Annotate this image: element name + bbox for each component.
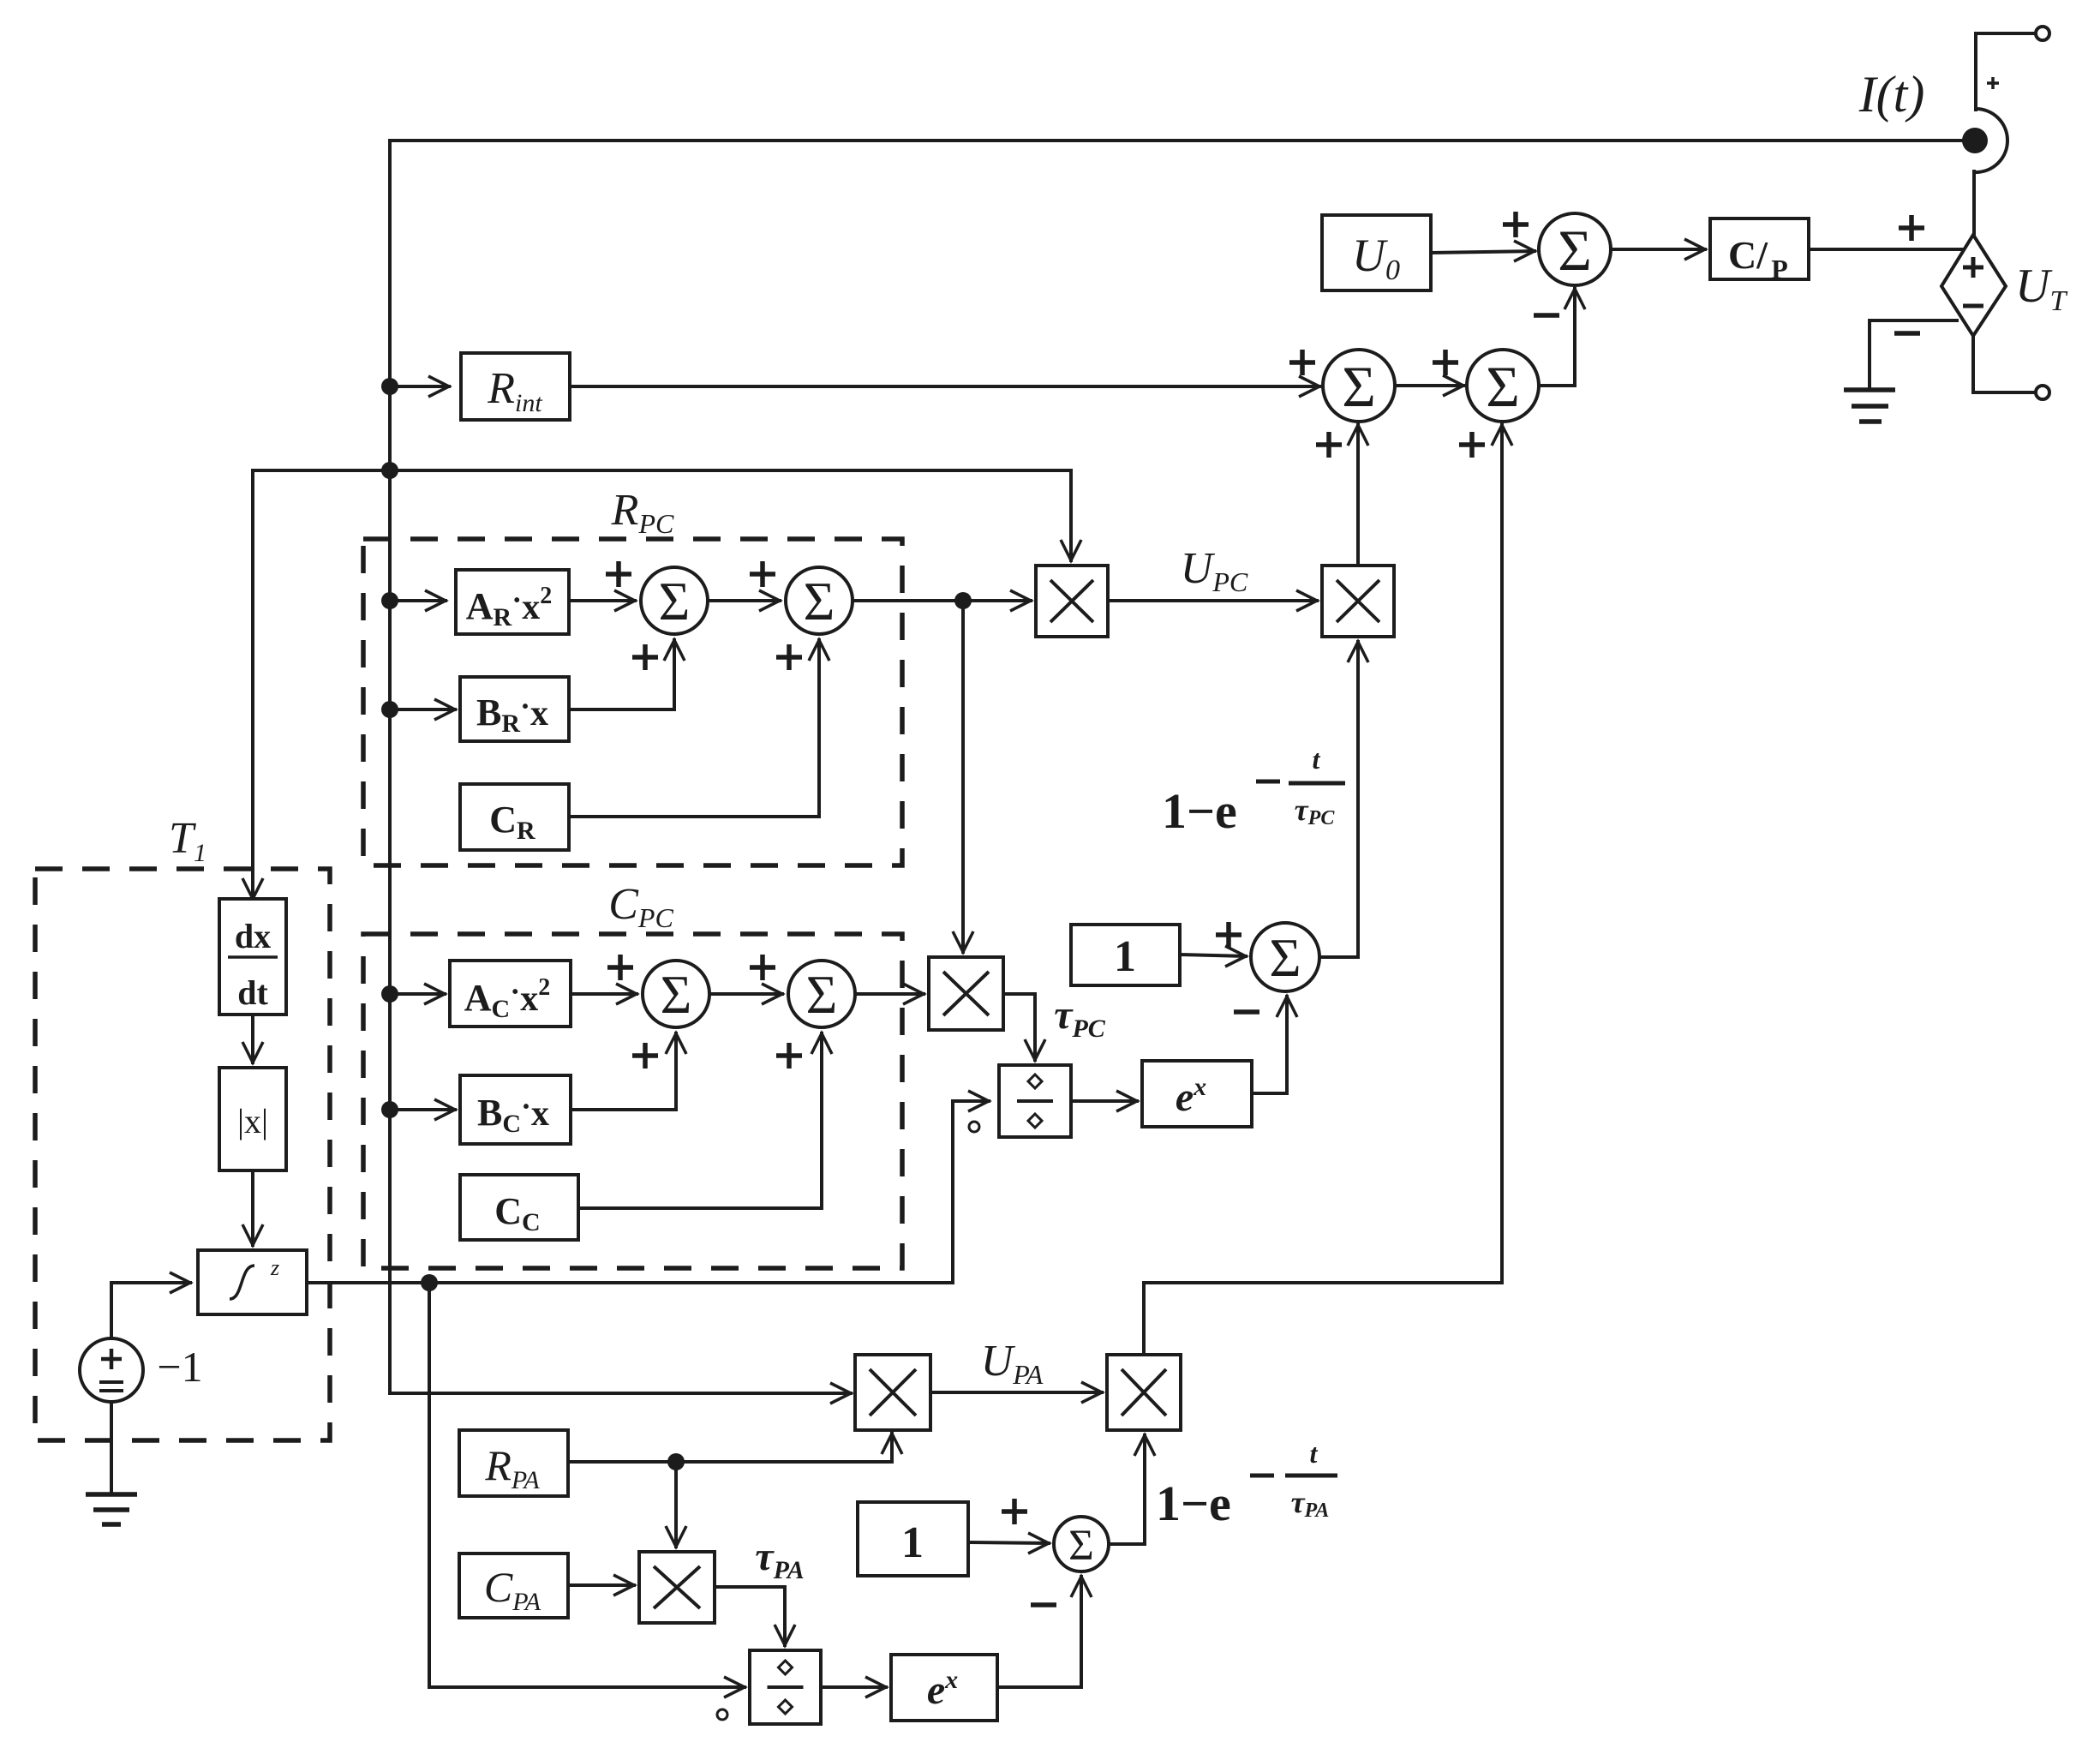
block PA constant 1 bbox=[858, 1502, 968, 1576]
current sensor polarity mark bbox=[1987, 77, 1999, 89]
svg-text:P: P bbox=[1771, 254, 1788, 284]
wire summer SA to SB bbox=[1395, 375, 1463, 396]
node junction RPC output bbox=[954, 592, 972, 609]
sign + SR1 bottom bbox=[632, 644, 658, 670]
wire PC exp to summer SPC bottom bbox=[1252, 997, 1297, 1093]
wire PA multiplier 2 output up bbox=[1144, 1283, 1502, 1355]
label I(t) bbox=[1858, 66, 1925, 123]
label T1 bbox=[169, 814, 206, 867]
block PC multiplier 2 bbox=[1322, 566, 1394, 637]
block PA exponential e^x bbox=[891, 1655, 997, 1721]
block saturating integrator bbox=[198, 1250, 307, 1314]
svg-text:1: 1 bbox=[1114, 932, 1136, 981]
wire summer SC2 to tau multiplier bbox=[856, 984, 924, 1004]
label U_PC bbox=[1181, 544, 1248, 597]
svg-text:Σ: Σ bbox=[659, 572, 691, 632]
wire R_int to summer SA bbox=[570, 376, 1319, 397]
wire abs to integrator bbox=[242, 1170, 263, 1245]
wire bus to R_int bbox=[390, 376, 449, 397]
wire PA tau multiplier to PA divider top (tau_PA) bbox=[715, 1587, 795, 1645]
wire summer SPA to PA multiplier 2 bottom bbox=[1109, 1435, 1155, 1544]
wire source to integrator bbox=[111, 1272, 190, 1338]
node junction R_PA output bbox=[667, 1453, 685, 1470]
block PA multiplier 2 bbox=[1107, 1355, 1181, 1430]
current sensor arc bbox=[1976, 109, 2007, 172]
wire summer SC1 to SC2 bbox=[710, 984, 782, 1004]
wire PC multiplier 1 to 2 (U_PC) bbox=[1108, 590, 1317, 611]
sign + SR2 bottom bbox=[776, 644, 802, 670]
node junction bus/AC bbox=[381, 985, 398, 1003]
source -1 circle bbox=[80, 1338, 143, 1402]
summer SA (R_int drop + U_PC) bbox=[1323, 350, 1395, 422]
wire bus to BC box bbox=[390, 1099, 455, 1120]
wire PA divider to PA exp bbox=[821, 1677, 886, 1697]
block AC*x^2 bbox=[450, 961, 571, 1027]
svg-text:dt: dt bbox=[237, 973, 268, 1012]
block tau_PA multiplier bbox=[639, 1552, 715, 1623]
block U0 bbox=[1322, 215, 1431, 290]
label tau_PA bbox=[755, 1534, 804, 1584]
wire top terminal lead bbox=[1976, 33, 2036, 110]
wire R_PA branch to PA tau multiplier top bbox=[666, 1462, 686, 1547]
sign + SPA left bbox=[1002, 1499, 1027, 1524]
svg-text:1−e: 1−e bbox=[1162, 783, 1237, 839]
wire sensor to source diamond bbox=[1972, 171, 1976, 236]
wire summer SB to summer S1 bottom bbox=[1539, 289, 1585, 386]
wire x-signal to T1 differentiator bbox=[242, 470, 390, 899]
wire source to ground bbox=[110, 1402, 113, 1493]
ground at -1 source bbox=[86, 1494, 137, 1524]
terminal top-right bbox=[2036, 27, 2049, 40]
summer SPC (1 - e) bbox=[1251, 923, 1319, 991]
node junction bus/AR bbox=[381, 592, 398, 609]
svg-text:Σ: Σ bbox=[804, 572, 835, 632]
label U_T bbox=[2015, 260, 2067, 317]
block BC*x bbox=[460, 1075, 571, 1144]
label C_PC bbox=[608, 880, 673, 933]
wire differentiator to abs bbox=[242, 1015, 263, 1063]
sign + SC1 left bbox=[607, 955, 633, 980]
wire integrator branch to PA divider bbox=[429, 1283, 745, 1697]
svg-text:|x|: |x| bbox=[237, 1102, 268, 1140]
svg-text:Σ: Σ bbox=[1558, 218, 1592, 283]
wire AC to summer SC1 bbox=[571, 984, 637, 1004]
wire main vertical distribution bus x=455 bbox=[388, 141, 392, 1393]
wire summer SR1 to SR2 bbox=[709, 590, 780, 611]
block PC constant 1 bbox=[1071, 925, 1180, 985]
sign + SB bottom bbox=[1459, 432, 1485, 458]
svg-text:Σ: Σ bbox=[1068, 1522, 1094, 1570]
summer SC2 (+CC) bbox=[788, 961, 855, 1027]
sign + S1 left bbox=[1503, 212, 1529, 237]
dashed box C_PC polynomial bbox=[363, 934, 902, 1268]
block C_PA bbox=[459, 1553, 568, 1618]
block PA divider bbox=[750, 1650, 821, 1724]
wire U0 to summer S1 bbox=[1431, 241, 1535, 261]
wire bus to PA multiplier 1 left input bbox=[390, 1383, 851, 1404]
svg-text:1: 1 bbox=[901, 1518, 924, 1567]
summer SB (+U_PA) bbox=[1467, 350, 1539, 422]
svg-text:Σ: Σ bbox=[1269, 927, 1301, 988]
marker circle at PC divider bbox=[969, 1122, 979, 1132]
svg-text:Σ: Σ bbox=[1342, 354, 1376, 419]
sign - SPC bottom bbox=[1234, 1009, 1259, 1015]
wire integrator output to PC divider bbox=[305, 1091, 989, 1283]
label -1 bbox=[157, 1343, 202, 1391]
wire x-signal to PC multiplier 1 top bbox=[390, 470, 1081, 560]
summer SPA (1 - e) bbox=[1054, 1517, 1109, 1571]
sign - at controlled source ground bbox=[1894, 331, 1920, 336]
block PC exponential e^x bbox=[1142, 1061, 1252, 1127]
sign + at controlled source input bbox=[1899, 215, 1924, 241]
wire bus to AR box bbox=[390, 590, 446, 611]
summer S1 (U0 - drops) bbox=[1539, 213, 1611, 285]
wire summer SR2 to PC multiplier 1 bbox=[853, 590, 1031, 611]
block tau_PC multiplier bbox=[929, 957, 1003, 1030]
dashed box T1 (temperature sub-model) bbox=[35, 869, 330, 1440]
label 1-e^-t/tauPC bbox=[1162, 744, 1345, 839]
wire summer SPC to PC multiplier 2 bottom bbox=[1319, 642, 1368, 957]
wire BR to summer SR1 bottom bbox=[569, 640, 685, 709]
sign + SC2 left bbox=[750, 955, 775, 980]
wire PA multiplier 1 to 2 (U_PA) bbox=[930, 1382, 1102, 1403]
node junction bus/x-signal bbox=[381, 462, 398, 479]
svg-text:C/: C/ bbox=[1728, 233, 1768, 277]
wire CR to summer SR2 bottom bbox=[569, 640, 829, 817]
svg-text:−1: −1 bbox=[157, 1343, 202, 1391]
label 1-e^-t/tauPA bbox=[1156, 1438, 1337, 1531]
wire BC to summer SC1 bottom bbox=[571, 1033, 686, 1110]
sign + SR1 left bbox=[606, 561, 631, 587]
sign - SPA bottom bbox=[1031, 1602, 1056, 1607]
node junction bus/BC bbox=[381, 1101, 398, 1118]
svg-text:z: z bbox=[270, 1255, 279, 1280]
sign + SB left bbox=[1433, 350, 1458, 375]
summer SR2 (+CR) bbox=[786, 567, 853, 634]
wire PC multiplier 2 to summer SA bottom bbox=[1348, 425, 1368, 566]
sign + SPC left bbox=[1216, 922, 1241, 948]
wire RPC value to tau multiplier top bbox=[953, 601, 973, 952]
wire source diamond to ground bbox=[1870, 320, 1957, 387]
terminal bottom-right bbox=[2036, 386, 2049, 399]
label R_PC bbox=[611, 486, 674, 539]
node junction bus/R_int bbox=[381, 378, 398, 395]
wire AR to summer SR1 bbox=[569, 590, 635, 611]
sign - S1 bottom bbox=[1534, 313, 1559, 318]
wire bus to AC box bbox=[390, 984, 445, 1004]
ground at controlled source bbox=[1844, 390, 1895, 422]
sign + SC2 bottom bbox=[776, 1043, 802, 1069]
svg-text:dx: dx bbox=[235, 917, 271, 955]
svg-text:Σ: Σ bbox=[1486, 354, 1520, 419]
wire C/p to controlled source bbox=[1809, 248, 1965, 251]
wire CC to summer SC2 bottom bbox=[578, 1033, 832, 1208]
block C/p gain bbox=[1710, 218, 1809, 284]
wire main current line I(t) top bbox=[390, 139, 1963, 142]
svg-text:Σ: Σ bbox=[806, 965, 838, 1025]
block PA multiplier 1 bbox=[855, 1355, 930, 1430]
node junction integrator output bbox=[421, 1274, 438, 1291]
wire PA result to summer SB bottom bbox=[1492, 425, 1512, 1283]
block CC bbox=[460, 1175, 578, 1240]
block R_int bbox=[461, 353, 570, 420]
dashed box R_PC polynomial bbox=[363, 539, 902, 865]
summer SC1 (AC+BC) bbox=[643, 961, 709, 1027]
wire PC divider to exp bbox=[1071, 1091, 1137, 1111]
block d/dt differentiator bbox=[219, 899, 286, 1015]
wire source diamond bottom to terminal bbox=[1973, 334, 2036, 392]
wire PA exp to summer SPA bottom bbox=[997, 1577, 1092, 1687]
summer SR1 (AR+BR) bbox=[641, 567, 708, 634]
current sensor node dot bbox=[1962, 128, 1988, 153]
wire C_PA to PA tau multiplier bbox=[568, 1575, 634, 1595]
svg-text:1−e: 1−e bbox=[1156, 1476, 1231, 1531]
block BR*x bbox=[460, 677, 569, 741]
label U_PA bbox=[981, 1337, 1044, 1390]
block absolute value |x| bbox=[219, 1068, 286, 1170]
svg-text:Σ: Σ bbox=[661, 965, 692, 1025]
wire tau multiplier to divider top (tau_PC) bbox=[1003, 994, 1045, 1060]
wire R_PA output bbox=[568, 1434, 902, 1462]
wire summer S1 to C/p bbox=[1611, 239, 1705, 260]
svg-text:t: t bbox=[1313, 744, 1321, 775]
block R_PA bbox=[459, 1430, 568, 1496]
wire PC one to summer SPC bbox=[1180, 946, 1246, 967]
sign + SC1 bottom bbox=[632, 1043, 658, 1069]
wire bus to BR box bbox=[390, 699, 455, 720]
node junction bus/BR bbox=[381, 701, 398, 718]
marker circle at PA divider bbox=[717, 1709, 727, 1720]
block PC divider bbox=[999, 1065, 1071, 1137]
block PC multiplier 1 bbox=[1036, 566, 1108, 637]
svg-text:t: t bbox=[1310, 1438, 1319, 1469]
label tau_PC bbox=[1054, 992, 1106, 1043]
svg-text:I(t): I(t) bbox=[1858, 66, 1925, 123]
sign + SA bottom bbox=[1316, 432, 1342, 458]
sign + SA left bbox=[1289, 350, 1315, 375]
controlled source U_T diamond bbox=[1941, 235, 2006, 336]
wire PA one to summer SPA bbox=[968, 1533, 1049, 1553]
block CR bbox=[460, 784, 569, 850]
block AR*x^2 bbox=[456, 570, 569, 634]
sign + SR2 left bbox=[750, 561, 775, 587]
